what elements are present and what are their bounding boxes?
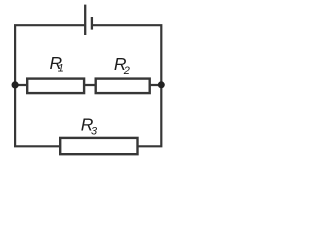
- wire middle branch: [15, 84, 161, 86]
- node right junction: [158, 81, 165, 88]
- svg-text:3: 3: [91, 125, 98, 137]
- resistor R2: [96, 79, 150, 94]
- battery B1 long plate: [84, 5, 86, 35]
- node left junction: [12, 81, 19, 88]
- resistor R1: [27, 79, 84, 94]
- svg-text:1: 1: [58, 63, 64, 75]
- resistor R3: [60, 138, 137, 154]
- wire outer loop: [15, 25, 161, 146]
- svg-text:2: 2: [123, 65, 130, 77]
- battery B1 short plate: [91, 17, 93, 30]
